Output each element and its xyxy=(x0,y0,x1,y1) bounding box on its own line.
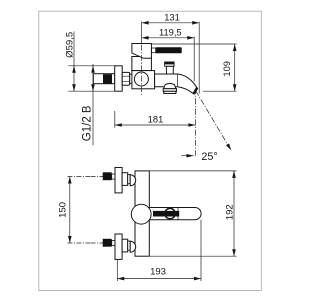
dimension G1/2 B thread callout xyxy=(92,64,94,145)
black inlet block xyxy=(103,172,112,180)
dimension 109 xyxy=(152,44,237,91)
spout joint line xyxy=(177,74,179,87)
dome connector xyxy=(130,175,136,186)
escutcheon (edge) xyxy=(115,234,122,259)
svg-text:119,5: 119,5 xyxy=(159,27,182,37)
supply centerline xyxy=(91,176,104,178)
dimension 193 xyxy=(117,220,201,281)
dimension 119,5 xyxy=(142,37,195,82)
body centerline xyxy=(140,45,142,96)
lower wall fitting (plan) xyxy=(91,234,136,259)
collar xyxy=(128,241,131,250)
dome connector xyxy=(130,241,136,252)
spout (plan, rounded) xyxy=(146,208,201,220)
svg-text:181: 181 xyxy=(148,114,164,124)
dimension 192 extension top (body top edge to dim) xyxy=(149,170,236,172)
cartridge circle xyxy=(134,72,148,86)
aerator dome xyxy=(164,83,176,88)
escutcheon (edge) xyxy=(115,168,122,193)
body (plan) xyxy=(135,171,149,256)
supply pipe xyxy=(93,74,114,84)
dimension 150 xyxy=(68,177,91,244)
svg-text:G1/2 B: G1/2 B xyxy=(82,105,94,141)
union nut (edge) xyxy=(122,173,128,186)
upper wall fitting (plan) xyxy=(91,168,136,193)
lever handle (black) xyxy=(156,47,182,53)
svg-text:25°: 25° xyxy=(201,151,217,163)
pipe stub xyxy=(112,174,115,179)
union nut (edge) xyxy=(122,239,128,252)
dimension 181 xyxy=(115,111,196,128)
svg-text:150: 150 xyxy=(58,202,69,218)
svg-text:193: 193 xyxy=(150,266,166,277)
diverter knob stem xyxy=(166,66,173,74)
spout tip face (thick) xyxy=(194,88,198,94)
drawing frame border xyxy=(39,11,261,290)
wall escutcheon xyxy=(115,66,123,91)
black inlet block xyxy=(103,239,112,247)
lever connector xyxy=(152,48,156,53)
aerator lower band xyxy=(164,91,176,93)
collar xyxy=(128,175,131,184)
spout axis centerline vertical xyxy=(194,88,196,156)
handle cap xyxy=(132,44,152,59)
dimension 192 xyxy=(233,171,235,256)
spout joint line (plan) xyxy=(177,208,179,220)
union nut xyxy=(122,72,130,85)
dimension diameter 59,5 xyxy=(68,32,114,92)
dimension 192 extension bottom xyxy=(149,255,236,257)
svg-text:Ø59,5: Ø59,5 xyxy=(64,32,75,58)
diverter knob cap xyxy=(165,62,175,66)
aerator band xyxy=(163,89,176,92)
svg-text:131: 131 xyxy=(164,12,180,22)
collar xyxy=(130,74,133,83)
spout xyxy=(155,74,197,94)
arrowhead on 25 degree line xyxy=(226,143,231,150)
black inlet block xyxy=(103,74,112,84)
pipe stub xyxy=(112,241,115,246)
dimension 131 xyxy=(142,22,200,94)
supply centerline xyxy=(91,242,104,244)
svg-text:192: 192 xyxy=(225,204,236,220)
spray angle 25 degree dash-dot line xyxy=(196,91,230,149)
lever (plan, black) xyxy=(153,211,179,217)
body main block xyxy=(132,71,155,89)
body neck xyxy=(132,57,152,71)
svg-text:109: 109 xyxy=(222,61,232,77)
handle dome circle (plan) xyxy=(131,204,151,224)
diverter knob ring (plan) xyxy=(165,208,175,218)
angle leader arrow horizontal xyxy=(181,155,193,157)
